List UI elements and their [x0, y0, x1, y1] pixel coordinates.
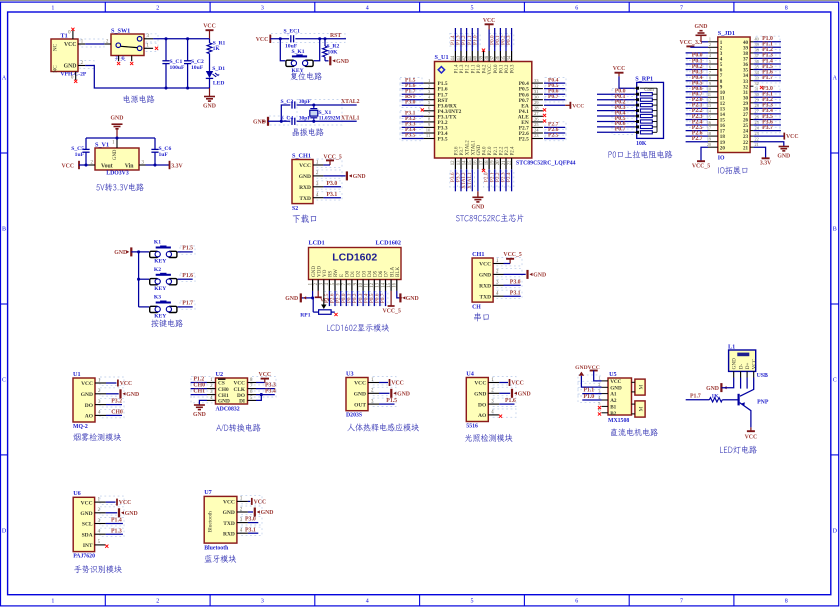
svg-text:DO: DO	[85, 403, 94, 409]
svg-text:P3.5: P3.5	[438, 137, 448, 143]
svg-text:10K: 10K	[636, 141, 647, 147]
capacitor S_C2 10uF	[184, 39, 204, 88]
title reset circuit	[290, 72, 321, 80]
svg-text:32: 32	[534, 83, 539, 88]
power VCC_3.3 port (IO)	[680, 40, 709, 48]
svg-text:15: 15	[387, 282, 392, 287]
svg-text:P3.0: P3.0	[245, 517, 256, 523]
title crystal circuit	[293, 128, 324, 136]
svg-text:GND: GND	[203, 104, 216, 110]
GND port (gesture)	[106, 508, 138, 517]
svg-text:U7: U7	[204, 489, 212, 496]
svg-text:GND: GND	[218, 399, 230, 405]
svg-text:P1.0: P1.0	[473, 35, 479, 45]
svg-text:VCC_5: VCC_5	[323, 154, 341, 160]
svg-text:SDA: SDA	[82, 532, 93, 538]
svg-text:MX1508: MX1508	[608, 418, 629, 424]
svg-text:RST: RST	[330, 33, 341, 39]
svg-text:GND: GND	[125, 511, 138, 517]
svg-text:RXD: RXD	[223, 531, 235, 537]
power VCC_5 port (download)	[323, 154, 341, 165]
wire CH0 (smoke AO)	[106, 410, 123, 416]
svg-text:S_C4: S_C4	[281, 115, 294, 121]
svg-text:25: 25	[755, 120, 759, 125]
svg-text:VCC: VCC	[613, 66, 626, 72]
svg-text:U6: U6	[73, 490, 81, 497]
svg-text:RXD: RXD	[299, 185, 311, 191]
connector T1 (VPH-C-2P power input)	[51, 28, 87, 83]
MCU right pins 33-23	[518, 78, 543, 143]
svg-text:35: 35	[755, 64, 759, 69]
svg-text:SCL: SCL	[82, 522, 93, 528]
motor driver U5 MX1508	[598, 371, 631, 424]
svg-text:GND: GND	[695, 24, 708, 30]
GND port (smoke)	[106, 389, 139, 398]
svg-text:VCC: VCC	[64, 42, 77, 48]
svg-text:S_JD1: S_JD1	[718, 30, 735, 37]
svg-text:VCC: VCC	[254, 500, 267, 506]
svg-text:30: 30	[534, 94, 539, 99]
svg-text:36: 36	[496, 55, 501, 60]
wire CH0 (ADC)	[191, 383, 207, 389]
svg-text:P1.2: P1.2	[466, 64, 471, 73]
svg-text:C: C	[833, 378, 837, 384]
GND port (serial)	[504, 270, 547, 279]
svg-text:3: 3	[261, 6, 264, 12]
svg-text:D203S: D203S	[346, 413, 362, 419]
svg-text:GND: GND	[354, 392, 366, 398]
wire P1.1 (motor A1)	[582, 388, 601, 394]
svg-text:DO: DO	[478, 402, 487, 408]
power VCC port	[203, 24, 216, 39]
ADC U2 ADC0832	[207, 371, 256, 413]
LCD1602 display LCD1	[308, 240, 401, 291]
gesture sensor U6 PAJ7620	[73, 490, 105, 559]
svg-text:1K: 1K	[711, 394, 719, 400]
svg-text:P1.0: P1.0	[583, 394, 594, 400]
svg-text:18: 18	[707, 131, 711, 136]
capacitor S_C1 100uF	[162, 39, 185, 88]
wires MCU left nets	[402, 77, 424, 138]
svg-text:DI: DI	[239, 399, 245, 405]
svg-text:P1.7: P1.7	[690, 394, 701, 400]
svg-text:GND: GND	[471, 204, 484, 210]
resistor network S_RP1 10K	[635, 75, 664, 147]
svg-text:VCC: VCC	[391, 381, 404, 387]
svg-text:18: 18	[485, 160, 490, 165]
ground GND (power circuit)	[203, 88, 216, 110]
svg-text:9: 9	[709, 81, 711, 86]
svg-text:B1: B1	[610, 404, 616, 410]
svg-text:PAJ7620: PAJ7620	[73, 554, 95, 560]
power GND VCC (motor)	[575, 365, 601, 387]
wire XTAL2 net	[281, 99, 359, 121]
svg-text:37: 37	[755, 53, 759, 58]
wire P1.5 (PIR OUT)	[379, 398, 397, 404]
wire keys common	[131, 250, 149, 307]
svg-text:P3.4: P3.4	[265, 389, 276, 395]
svg-text:27: 27	[534, 111, 539, 116]
svg-text:D+: D+	[745, 363, 751, 370]
no-connect motor B1 B2	[598, 406, 601, 416]
svg-text:XTAL1: XTAL1	[467, 172, 473, 189]
svg-text:S_C3: S_C3	[281, 99, 294, 105]
svg-text:P0.3: P0.3	[506, 35, 512, 45]
svg-text:13: 13	[457, 160, 462, 165]
power VCC port (IO right)	[753, 133, 798, 141]
wire P3.3 (ADC CLK)	[256, 383, 276, 389]
svg-text:23: 23	[534, 133, 539, 138]
svg-text:P0.7: P0.7	[615, 127, 626, 133]
svg-text:VCC_3.3: VCC_3.3	[680, 40, 703, 46]
svg-text:42: 42	[462, 55, 467, 60]
svg-text:S_SW1: S_SW1	[111, 28, 130, 35]
svg-text:38: 38	[755, 48, 759, 53]
svg-text:17: 17	[479, 160, 484, 165]
svg-text:36: 36	[755, 59, 759, 64]
svg-text:31: 31	[755, 87, 759, 92]
svg-text:P2.5: P2.5	[519, 137, 529, 143]
GND port (USB)	[706, 378, 734, 393]
svg-text:GND: GND	[299, 174, 311, 180]
wire P3.2 (smoke DO)	[106, 399, 122, 405]
svg-text:7: 7	[680, 6, 683, 12]
svg-text:GND: GND	[261, 510, 274, 516]
svg-text:L1: L1	[728, 343, 735, 350]
resistor S_R1 1K	[207, 39, 225, 54]
svg-text:P3.0: P3.0	[405, 100, 416, 106]
potentiometer RP1	[300, 291, 337, 319]
svg-text:VCC: VCC	[62, 163, 75, 169]
no-connect gesture INT	[105, 545, 108, 548]
connector S_CH1 download port	[292, 152, 323, 212]
svg-text:U2: U2	[216, 371, 224, 378]
GND port (crystal)	[253, 117, 268, 126]
svg-text:33: 33	[755, 76, 759, 81]
svg-text:GND: GND	[80, 511, 92, 517]
svg-text:P2.7: P2.7	[692, 136, 703, 142]
svg-text:P3.6: P3.6	[455, 146, 460, 155]
svg-text:IO: IO	[718, 155, 725, 161]
power VCC_5 (LCD VDD)	[315, 291, 337, 304]
wire ADC DI tie	[256, 395, 261, 401]
svg-text:S_U1: S_U1	[435, 54, 449, 61]
svg-text:10uF: 10uF	[191, 65, 204, 71]
svg-text:NC: NC	[53, 65, 59, 73]
svg-text:VCC: VCC	[81, 381, 93, 387]
power 3.3V (IO bottom right)	[753, 147, 772, 167]
svg-text:GND: GND	[575, 365, 587, 371]
no-connect IO pin 32	[760, 86, 763, 89]
ground GND (MCU)	[471, 191, 484, 210]
svg-text:P1.4: P1.4	[111, 518, 122, 524]
title ADC circuit	[216, 424, 260, 432]
svg-text:22: 22	[755, 137, 759, 142]
svg-text:1: 1	[709, 37, 711, 42]
svg-text:43: 43	[457, 55, 462, 60]
svg-text:CS: CS	[218, 381, 225, 387]
svg-text:31: 31	[534, 89, 539, 94]
svg-text:28: 28	[755, 103, 759, 108]
svg-text:1K: 1K	[213, 46, 221, 52]
svg-text:19: 19	[491, 160, 496, 165]
svg-text:GND: GND	[518, 391, 531, 397]
svg-text:29: 29	[534, 100, 539, 105]
GND port (bluetooth)	[248, 508, 274, 517]
wire P1.4 (gesture SCL)	[106, 518, 123, 524]
power VCC (gesture)	[106, 499, 132, 507]
svg-text:P1.7: P1.7	[762, 75, 773, 81]
svg-text:24: 24	[534, 128, 539, 133]
title LED circuit	[720, 446, 757, 454]
svg-text:39: 39	[479, 55, 484, 60]
svg-text:P3.7: P3.7	[460, 146, 465, 155]
svg-text:16: 16	[474, 160, 479, 165]
svg-text:KEY: KEY	[154, 259, 166, 265]
wire top rail LDO	[86, 136, 155, 139]
svg-text:P0.7: P0.7	[548, 94, 559, 100]
svg-text:P1.5: P1.5	[386, 398, 397, 404]
svg-text:VCC: VCC	[488, 65, 493, 75]
title light module	[465, 434, 513, 442]
wire VCC to RP1 common	[619, 76, 635, 88]
svg-text:P0.0: P0.0	[494, 64, 499, 73]
svg-text:Vin: Vin	[125, 163, 135, 169]
svg-text:VCC: VCC	[483, 18, 496, 24]
svg-text:1uF: 1uF	[75, 152, 85, 158]
ground GND (IO top)	[695, 24, 708, 42]
svg-text:2: 2	[156, 6, 159, 12]
wire T1 VCC to switch	[85, 43, 104, 45]
ground GND (IO right)	[753, 142, 790, 160]
GND port (light)	[499, 389, 530, 398]
svg-text:U3: U3	[346, 370, 354, 377]
svg-text:CH1: CH1	[193, 389, 205, 395]
power VCC (LED bottom)	[745, 427, 758, 440]
smoke sensor U1 MQ-2	[73, 371, 106, 430]
svg-text:28: 28	[534, 106, 539, 111]
svg-text:GND: GND	[706, 386, 719, 392]
svg-text:K1: K1	[154, 240, 161, 246]
svg-text:B: B	[833, 227, 837, 233]
key K1	[150, 240, 193, 265]
key K3	[139, 295, 194, 320]
svg-text:LDO3V3: LDO3V3	[106, 171, 129, 177]
svg-text:U4: U4	[466, 370, 474, 377]
svg-text:STC89C52RC_LQFP44: STC89C52RC_LQFP44	[516, 161, 576, 167]
svg-text:20: 20	[720, 145, 726, 151]
svg-text:P1.7: P1.7	[182, 301, 193, 307]
svg-text:29: 29	[755, 98, 759, 103]
wires IO P1.0-P1.7	[753, 36, 781, 81]
svg-text:P2.0: P2.0	[488, 146, 493, 155]
title P0 pull-up	[608, 150, 672, 158]
svg-text:XTAL2: XTAL2	[466, 140, 471, 156]
svg-text:VCC: VCC	[610, 379, 621, 385]
title power circuit	[124, 95, 155, 103]
svg-text:1uF: 1uF	[159, 152, 169, 158]
svg-text:19: 19	[707, 137, 711, 142]
svg-text:GND: GND	[126, 392, 139, 398]
svg-text:8: 8	[785, 599, 788, 605]
wire P3.0 (download)	[323, 181, 341, 187]
svg-text:RP1: RP1	[300, 313, 310, 319]
svg-text:15: 15	[468, 160, 473, 165]
svg-text:TXD: TXD	[223, 521, 235, 527]
svg-text:TXD: TXD	[479, 294, 491, 300]
wires IO P0.0-P0.7	[686, 53, 708, 98]
svg-text:10K: 10K	[328, 50, 339, 56]
svg-text:27: 27	[755, 109, 759, 114]
svg-text:P3.7: P3.7	[762, 125, 773, 131]
svg-text:7: 7	[709, 70, 711, 75]
svg-text:XTAL1: XTAL1	[341, 115, 360, 121]
svg-text:GND: GND	[223, 510, 235, 516]
svg-text:40: 40	[474, 55, 479, 60]
svg-text:MQ-2: MQ-2	[73, 424, 88, 430]
svg-text:GND: GND	[610, 385, 622, 391]
svg-text:P0.3: P0.3	[511, 64, 516, 73]
title smoke module	[73, 433, 121, 441]
wire LDO Vin to 3.3V	[146, 163, 170, 166]
title MCU	[456, 214, 523, 222]
wire P1.0 (motor A2)	[582, 394, 601, 400]
ground GND (LDO)	[111, 116, 124, 139]
svg-text:P1.5: P1.5	[182, 246, 193, 252]
svg-text:XTAL2: XTAL2	[341, 99, 360, 105]
svg-text:10: 10	[707, 87, 711, 92]
resistor R 1K (LED base)	[686, 394, 738, 403]
svg-text:P1.3: P1.3	[460, 64, 465, 73]
svg-text:17: 17	[707, 125, 711, 130]
capacitor S_C4 30pF	[281, 115, 312, 125]
svg-text:VCC: VCC	[223, 500, 235, 506]
svg-text:VCC_5: VCC_5	[383, 309, 401, 315]
motor M1	[632, 379, 646, 395]
wires MCU top nets	[450, 18, 512, 52]
svg-text:3.3V: 3.3V	[760, 161, 772, 167]
svg-text:7: 7	[680, 599, 683, 605]
capacitor S_C6 1uF	[151, 138, 171, 165]
svg-text:P1.6: P1.6	[505, 398, 516, 404]
svg-text:BLK: BLK	[395, 266, 401, 277]
svg-text:P0.7: P0.7	[380, 293, 386, 303]
power VCC port (LDO input)	[62, 161, 88, 170]
svg-text:GND: GND	[353, 174, 366, 180]
svg-text:5: 5	[709, 59, 711, 64]
wires IO P3.0-P3.7	[753, 86, 781, 131]
svg-text:VPH-C-2P: VPH-C-2P	[61, 72, 87, 78]
svg-text:6: 6	[709, 64, 711, 69]
connector S_JD1 IO expansion 40-pin	[707, 30, 760, 162]
svg-text:INT: INT	[83, 543, 93, 549]
wire P3.1 (download)	[323, 192, 341, 198]
svg-text:CH0: CH0	[111, 410, 123, 416]
GND port (LCD left)	[285, 291, 314, 303]
svg-text:VCC: VCC	[745, 435, 758, 441]
svg-text:100uF: 100uF	[170, 65, 186, 71]
svg-text:D-: D-	[739, 364, 745, 370]
svg-text:VCC: VCC	[354, 381, 366, 387]
svg-text:S2: S2	[292, 206, 298, 212]
svg-text:S_X1: S_X1	[319, 110, 332, 116]
svg-text:P2.4: P2.4	[511, 146, 516, 155]
regulator S_V1 LDO3V3	[89, 138, 146, 177]
svg-text:D: D	[2, 529, 7, 535]
svg-text:12: 12	[451, 160, 456, 165]
power VCC (ADC)	[256, 372, 271, 382]
svg-text:1: 1	[51, 6, 54, 12]
svg-text:Vout: Vout	[101, 163, 113, 169]
svg-text:K3: K3	[154, 295, 161, 301]
svg-text:20: 20	[707, 142, 711, 147]
svg-text:VCC: VCC	[299, 163, 311, 169]
svg-text:32: 32	[755, 81, 759, 86]
wires P0.0-P0.7 to RP1	[597, 89, 635, 133]
capacitor S_C5 1uF	[71, 138, 89, 165]
svg-text:VCC: VCC	[120, 381, 133, 387]
svg-text:GND: GND	[111, 116, 124, 122]
svg-text:KEY: KEY	[292, 68, 304, 74]
svg-text:21: 21	[743, 145, 749, 151]
svg-text:LCD1: LCD1	[309, 240, 325, 247]
svg-text:LCD1602: LCD1602	[376, 240, 401, 247]
svg-text:GND: GND	[113, 149, 118, 160]
svg-text:GND: GND	[193, 412, 206, 418]
svg-text:P2.2: P2.2	[500, 146, 505, 155]
svg-text:OUT: OUT	[354, 402, 366, 408]
svg-text:S_D1: S_D1	[212, 66, 225, 72]
wire T1 GND to bottom rail	[85, 66, 209, 90]
svg-text:P1.3: P1.3	[111, 528, 122, 534]
svg-text:VCC_5: VCC_5	[503, 252, 521, 258]
svg-text:TXD: TXD	[299, 196, 311, 202]
svg-text:P1.1: P1.1	[471, 64, 476, 73]
svg-text:GND: GND	[64, 64, 77, 70]
svg-text:21: 21	[755, 142, 759, 147]
svg-text:CH1: CH1	[472, 251, 484, 258]
svg-text:34: 34	[507, 55, 512, 60]
GND port (PIR)	[379, 389, 410, 398]
svg-text:P1.0: P1.0	[477, 64, 482, 73]
svg-text:K2: K2	[154, 267, 161, 273]
wire P3.0 (bluetooth)	[245, 517, 258, 523]
GND port (download)	[323, 171, 365, 180]
svg-text:AO: AO	[85, 414, 94, 420]
svg-text:35: 35	[502, 55, 507, 60]
svg-text:KEY: KEY	[154, 286, 166, 292]
svg-text:6: 6	[575, 599, 578, 605]
svg-text:P4.2: P4.2	[483, 64, 488, 73]
svg-text:1: 1	[51, 599, 54, 605]
wire P1.6 (light DO)	[499, 398, 516, 404]
wire P3.1 (serial)	[504, 290, 521, 296]
svg-text:8: 8	[785, 6, 788, 12]
connector CH1 serial port	[472, 251, 503, 311]
crystal S_X1 11.0592M	[310, 105, 332, 121]
svg-text:GND: GND	[81, 392, 93, 398]
svg-text:38: 38	[485, 55, 490, 60]
svg-text:P3.1: P3.1	[327, 192, 338, 198]
ground GND (ADC)	[193, 400, 207, 418]
power VCC (bluetooth)	[248, 498, 266, 506]
power VCC (light)	[499, 379, 524, 387]
svg-text:P2.3: P2.3	[505, 146, 510, 155]
svg-text:S_K1: S_K1	[292, 49, 305, 55]
svg-text:VCC: VCC	[234, 381, 246, 387]
svg-text:GND: GND	[406, 296, 419, 302]
svg-text:GND: GND	[285, 296, 298, 302]
